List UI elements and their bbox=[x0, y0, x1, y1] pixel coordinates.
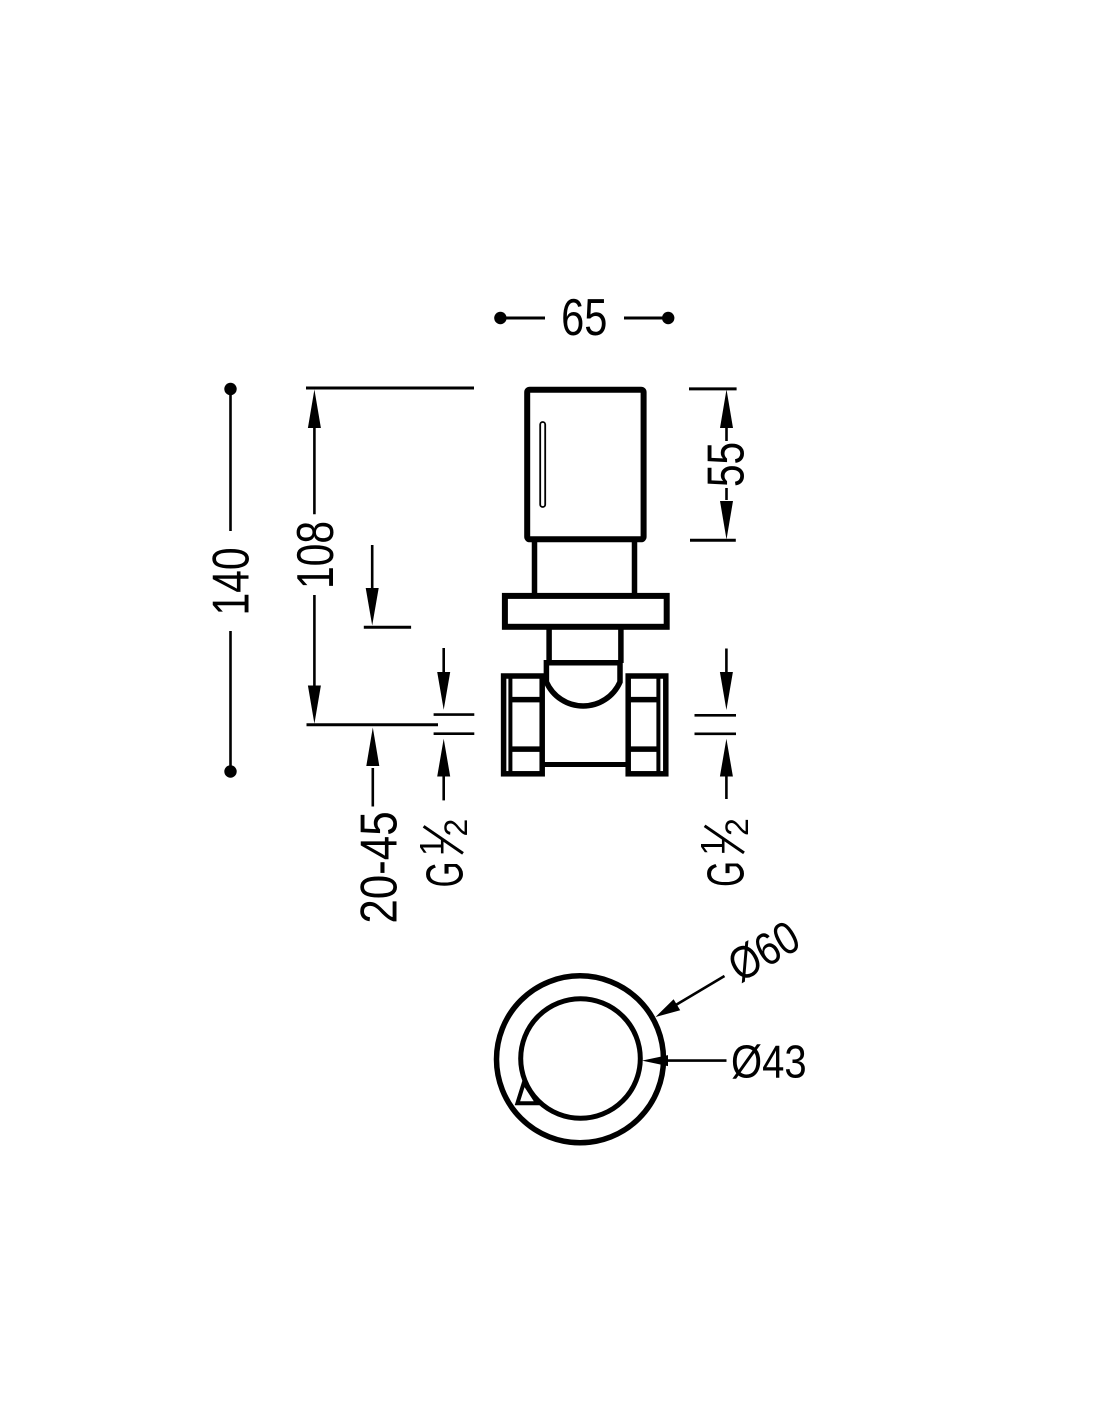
svg-text:108: 108 bbox=[286, 521, 344, 589]
valve stem bbox=[535, 541, 635, 593]
svg-text:55: 55 bbox=[697, 442, 755, 487]
label 65 bbox=[561, 288, 607, 347]
dimension 108 (handle top to wall) bbox=[308, 390, 321, 724]
svg-text:Ø43: Ø43 bbox=[731, 1037, 807, 1088]
svg-text:140: 140 bbox=[202, 547, 260, 615]
label 140 bbox=[202, 547, 260, 615]
dimension 55 (handle height) bbox=[720, 390, 733, 540]
label G1/2 left bbox=[414, 819, 475, 888]
neck below flange bbox=[549, 629, 621, 663]
extension line top-right bbox=[689, 387, 737, 390]
label 55 bbox=[697, 442, 755, 487]
escutcheon flange bbox=[505, 596, 667, 627]
plan view outer circle (flange Ø60) bbox=[497, 976, 664, 1143]
extension line top-left (handle top plane) bbox=[306, 387, 474, 390]
thread callout G1/2 left bbox=[434, 648, 475, 800]
dimension 140 (overall height, dot terminated) bbox=[224, 383, 236, 778]
depth stop upper arrow (to flange back plane) bbox=[366, 545, 379, 626]
extension line wall plane bbox=[307, 723, 439, 726]
handle body bbox=[527, 390, 643, 540]
label 20-45 bbox=[350, 811, 408, 923]
label Ø43 bbox=[731, 1037, 807, 1088]
extension line flange back plane bbox=[364, 626, 411, 629]
svg-text:2: 2 bbox=[438, 819, 474, 837]
label 108 bbox=[286, 521, 344, 589]
union nut left bbox=[504, 676, 543, 774]
label G1/2 right bbox=[695, 818, 756, 887]
thread callout G1/2 right bbox=[695, 649, 737, 800]
svg-text:20-45: 20-45 bbox=[350, 811, 408, 923]
extension line right (handle bottom plane) bbox=[690, 539, 736, 542]
valve body bottom edge bbox=[545, 762, 626, 767]
valve dome cap bbox=[545, 660, 622, 706]
svg-text:65: 65 bbox=[561, 288, 607, 347]
leader Ø43 bbox=[642, 1055, 727, 1066]
dimension 20-45 (mounting depth) bbox=[366, 728, 379, 807]
leader Ø60 bbox=[656, 976, 725, 1017]
svg-text:G: G bbox=[416, 862, 474, 888]
svg-text:2: 2 bbox=[719, 818, 755, 836]
union nut right bbox=[628, 676, 666, 774]
svg-text:G: G bbox=[697, 861, 755, 887]
handle position indicator triangle bbox=[517, 1083, 537, 1104]
label Ø60 bbox=[719, 911, 808, 992]
dimension 65 (top width) bbox=[494, 312, 674, 324]
handle indicator slot bbox=[540, 422, 545, 507]
plan view inner circle (handle Ø43) bbox=[521, 999, 641, 1119]
